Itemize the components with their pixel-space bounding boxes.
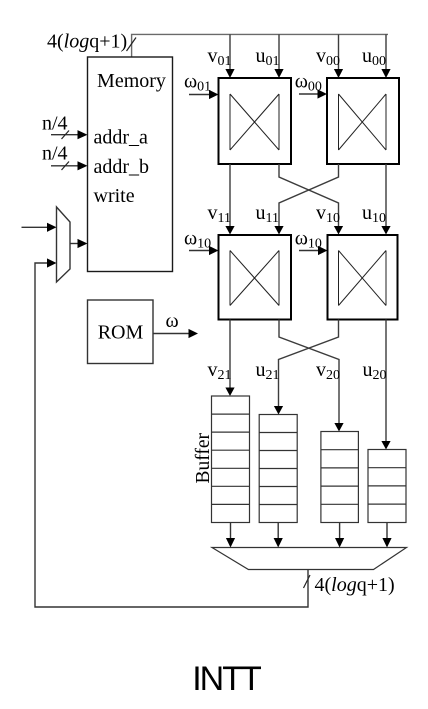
label v21	[208, 359, 232, 383]
svg-text:Memory: Memory	[97, 70, 166, 92]
butterfly unit row1 right	[327, 78, 399, 164]
butterfly unit row2 right	[328, 235, 398, 320]
wire u20 straight to buffer4	[381, 320, 390, 450]
wire feedback loop	[35, 258, 308, 607]
svg-text:Buffer: Buffer	[193, 432, 214, 483]
svg-text:write: write	[94, 185, 135, 207]
wire v00 drop	[334, 34, 343, 78]
label u00	[362, 45, 386, 69]
wire w01 arrow	[189, 90, 219, 99]
buffer stack 4	[368, 450, 406, 523]
buffer stack 1	[212, 396, 250, 523]
label w10 right	[295, 228, 322, 252]
label v11	[208, 202, 231, 226]
svg-text:INTT: INTT	[192, 660, 261, 698]
mux left input select	[57, 207, 71, 282]
svg-text:4(logq+1): 4(logq+1)	[315, 574, 395, 596]
wire crossover row2 right-v to buffer2	[274, 320, 339, 415]
label w01	[184, 71, 211, 95]
label write	[94, 185, 135, 207]
wire buffer4 output	[382, 523, 391, 548]
label u21	[256, 359, 280, 383]
wire v01-out straight to row2	[225, 164, 234, 235]
label n/4 first	[42, 113, 68, 135]
label v01	[208, 45, 232, 69]
buffer stack 2	[259, 415, 297, 523]
label 4(logq+1) top	[47, 31, 127, 53]
wire crossover row2 left-u to buffer3	[279, 320, 344, 432]
label v00	[316, 45, 340, 69]
label addr_a	[94, 126, 149, 148]
label Buffer rotated	[193, 432, 214, 483]
slash bus-width tick top	[127, 38, 137, 52]
buffer stack 3	[321, 432, 359, 523]
svg-text:ROM: ROM	[98, 322, 144, 344]
label w out	[166, 310, 179, 332]
wire v01 drop	[225, 34, 234, 78]
svg-text:n/4: n/4	[42, 113, 68, 135]
label u10	[362, 202, 386, 226]
slash addr_b tick	[62, 162, 70, 171]
wire buffer2 output	[274, 523, 283, 548]
svg-text:addr_b: addr_b	[94, 156, 150, 178]
label u11	[256, 202, 279, 226]
wire addr_a input	[51, 130, 88, 139]
ROM box	[88, 300, 154, 364]
wire crossover u01-out to right	[279, 164, 343, 235]
butterfly unit row1 left	[219, 78, 292, 164]
wire buffer1 output	[226, 523, 235, 548]
label n/4 second	[42, 143, 68, 165]
wire ROM omega output	[153, 329, 198, 338]
slash bus-width tick bottom	[304, 575, 311, 588]
wire buffer3 output	[335, 523, 344, 548]
svg-text:ω: ω	[166, 310, 179, 332]
label INTT	[192, 660, 261, 698]
label w10 left	[184, 228, 211, 252]
svg-text:addr_a: addr_a	[94, 126, 149, 148]
label Memory	[97, 70, 166, 92]
label v20	[316, 359, 340, 383]
wire u01 drop	[274, 34, 283, 78]
slash addr_a tick	[62, 131, 70, 140]
label v10	[316, 202, 340, 226]
wire v21 straight to buffer1	[225, 320, 234, 397]
wire crossover v00-out to left	[274, 164, 338, 235]
butterfly unit row2 left	[219, 235, 292, 320]
label addr_b	[94, 156, 150, 178]
svg-text:n/4: n/4	[42, 143, 68, 165]
wire w10 right arrow	[299, 246, 328, 255]
svg-text:4(logq+1): 4(logq+1)	[47, 31, 127, 53]
label u01	[256, 45, 280, 69]
label ROM	[98, 322, 144, 344]
wire u00 drop	[381, 34, 390, 78]
wire w10 left arrow	[189, 246, 219, 255]
wire mux output to Memory	[70, 239, 88, 248]
wire external input to mux	[22, 223, 57, 232]
label u20	[363, 359, 387, 383]
label w00	[295, 71, 322, 95]
label 4(logq+1) bottom	[315, 574, 395, 596]
mux bottom output select	[212, 548, 407, 570]
wire u00-out straight to row2	[381, 164, 390, 235]
wire w00 arrow	[299, 89, 327, 98]
wire bus from Memory top to top-right	[132, 34, 388, 57]
Memory box	[88, 57, 173, 272]
wire addr_b input	[51, 161, 88, 170]
